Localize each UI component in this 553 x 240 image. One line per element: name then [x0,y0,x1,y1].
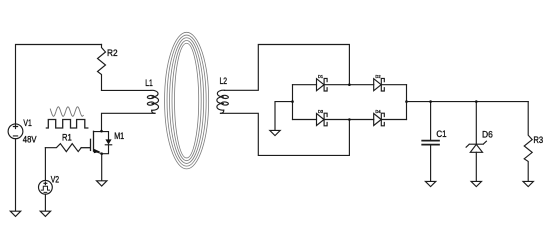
svg-text:D6: D6 [482,130,493,141]
wire L2 bottom to bridge [221,113,350,155]
ground below M1 [97,181,107,186]
diode D4 [374,114,382,126]
ground below D6 [471,181,481,186]
wire V1 top to R2 [16,45,102,124]
ground below V2 [40,211,50,216]
node C1 tap [429,100,432,103]
transistor M1 [81,131,93,151]
diode D3 [317,114,325,126]
voltage source V1 [8,124,23,139]
svg-text:V2: V2 [51,175,59,186]
ground below C1 [425,181,435,186]
voltage source V2 [39,180,53,194]
inductor L1 [151,90,159,113]
node left bus mid [291,100,294,103]
wire R2 to L1 [102,89,151,91]
ground below V1 [10,211,20,216]
svg-text:R3: R3 [533,135,543,146]
svg-text:D3: D3 [318,109,323,114]
svg-text:R1: R1 [62,133,72,144]
wire bridge left bus [292,85,294,120]
wire V2 bottom [44,194,46,211]
wire V1 bottom [15,139,17,212]
svg-text:L2: L2 [220,76,228,87]
inductor L2 [217,90,225,113]
wire M1 source to ground [101,154,103,181]
zener diode D6 [475,102,477,145]
wire L1 bottom to M1 drain [102,113,156,131]
svg-text:D1: D1 [318,74,323,79]
capacitor C1 [430,102,432,140]
wire left bus to ground [275,102,293,131]
svg-text:L1: L1 [145,78,153,89]
node bridge bottom tap [348,118,351,121]
svg-text:C1: C1 [436,129,446,140]
wire bridge top branch [293,84,407,86]
svg-text:V1: V1 [23,118,31,129]
diode D2 [374,79,382,91]
resistor R2 [98,45,106,91]
resistor R3 [524,102,532,182]
wire L2 top to bridge [224,45,349,91]
wire output rail [407,101,529,103]
wire R1 to V2 [44,148,46,181]
wire bridge right bus [406,85,408,120]
svg-text:R2: R2 [107,48,118,59]
wire bridge bottom branch [293,119,407,121]
resistor R1 [45,144,81,152]
svg-text:D4: D4 [375,109,381,114]
node bridge top tap [348,83,351,86]
node right bus mid [405,100,408,103]
svg-text:48V: 48V [23,134,37,145]
svg-text:M1: M1 [114,131,124,142]
sine waveform annotation [50,107,83,117]
transformer core ellipses [165,32,209,169]
node D6 tap [475,100,478,103]
square wave annotation [46,120,87,129]
diode D1 [317,79,325,91]
ground bridge left [270,130,280,135]
svg-text:D2: D2 [375,74,381,79]
ground below R3 [523,181,533,186]
